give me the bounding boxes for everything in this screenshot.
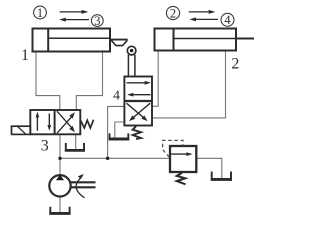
svg-text:3: 3 [94,14,100,28]
svg-text:2: 2 [231,55,239,72]
svg-text:1: 1 [37,6,43,20]
svg-text:2: 2 [170,6,176,20]
svg-text:4: 4 [113,88,120,103]
svg-text:3: 3 [41,138,49,155]
svg-text:1: 1 [21,47,29,64]
svg-text:4: 4 [224,13,231,27]
